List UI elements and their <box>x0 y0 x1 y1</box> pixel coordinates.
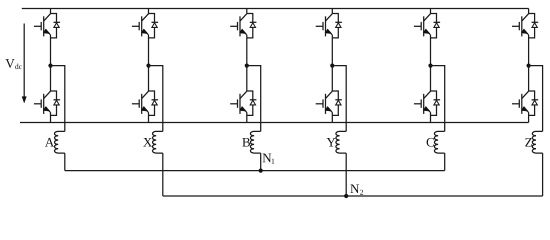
transistor Q6 IGBT (phase B lower) <box>230 91 247 114</box>
wire: Q5 emitter to midpoint node <box>246 35 248 66</box>
label phase X <box>143 138 152 147</box>
wire: neutral bus N1 (phases A,B,C) <box>65 170 445 172</box>
wire: phase A winding to neutral N1 <box>64 153 66 171</box>
label phase Y <box>327 138 336 147</box>
Vdc voltage arrow <box>22 24 26 103</box>
label phase C <box>427 138 434 147</box>
wire: Q1 collector/emitter branch to diode D1 <box>51 14 57 38</box>
wire: negative DC bus (bottom rail) <box>20 122 529 124</box>
wire: Q5 collector/emitter branch to diode D5 <box>247 14 253 38</box>
transistor Q4 IGBT (phase X lower) <box>132 91 149 114</box>
wire: neutral bus N2 (phases X,Y,Z) <box>163 195 543 197</box>
wire: top rail to Q1 collector <box>50 9 52 14</box>
diode D12 antiparallel (phase Z lower) <box>532 100 539 105</box>
diode D9 antiparallel (phase C upper) <box>434 22 441 27</box>
wire: top rail to Q11 collector <box>528 9 530 14</box>
diode D6 antiparallel (phase B lower) <box>250 100 257 105</box>
transistor Q12 IGBT (phase Z lower) <box>512 91 529 114</box>
wire: Q6 collector/emitter branch to diode D6 <box>247 91 253 115</box>
diode D1 antiparallel (phase A upper) <box>54 22 61 27</box>
wire: Q3 collector/emitter branch to diode D3 <box>149 14 155 38</box>
wire: Q2 emitter to bottom rail <box>50 112 52 122</box>
wire: midpoint to Q8 collector <box>331 66 333 91</box>
label phase Z <box>525 138 532 147</box>
node: phase B midpoint junction <box>245 64 249 68</box>
node: phase C midpoint junction <box>428 64 432 68</box>
wire: phase Z winding to neutral N2 <box>542 153 544 196</box>
inductor: phase C stator winding <box>434 131 444 153</box>
wire: Q10 emitter to bottom rail <box>430 112 432 122</box>
wire: midpoint to Q2 collector <box>50 66 52 91</box>
wire: phase Y winding to neutral N2 <box>345 153 347 196</box>
inductor: phase Y stator winding <box>336 131 346 153</box>
diode D4 antiparallel (phase X lower) <box>152 100 159 105</box>
wire: phase X output from midpoint down to winding <box>149 66 163 132</box>
wire: Q12 emitter to bottom rail <box>528 112 530 122</box>
inductor: phase B stator winding <box>250 131 260 153</box>
wire: phase B winding to neutral N1 <box>260 153 262 171</box>
wire: Q8 collector/emitter branch to diode D8 <box>332 91 338 115</box>
transistor Q9 IGBT (phase C upper) <box>414 14 431 37</box>
node: phase Y midpoint junction <box>330 64 334 68</box>
wire: Q3 emitter to midpoint node <box>148 35 150 66</box>
wire: midpoint to Q12 collector <box>528 66 530 91</box>
transistor Q5 IGBT (phase B upper) <box>230 14 247 37</box>
wire: Q8 emitter to bottom rail <box>331 112 333 122</box>
wire: Q9 emitter to midpoint node <box>430 35 432 66</box>
wire: Q4 emitter to bottom rail <box>148 112 150 122</box>
diode D3 antiparallel (phase X upper) <box>152 22 159 27</box>
node N1 junction <box>259 169 263 173</box>
wire: Q1 emitter to midpoint node <box>50 35 52 66</box>
wire: Q7 collector/emitter branch to diode D7 <box>332 14 338 38</box>
wire: Q4 collector/emitter branch to diode D4 <box>149 91 155 115</box>
wire: Q2 collector/emitter branch to diode D2 <box>51 91 57 115</box>
transistor Q11 IGBT (phase Z upper) <box>512 14 529 37</box>
wire: phase C winding to neutral N1 <box>444 153 446 171</box>
transistor Q2 IGBT (phase A lower) <box>34 91 51 114</box>
diode D7 antiparallel (phase Y upper) <box>335 22 342 27</box>
wire: Q10 collector/emitter branch to diode D10 <box>431 91 437 115</box>
transistor Q3 IGBT (phase X upper) <box>132 14 149 37</box>
wire: top rail to Q5 collector <box>246 9 248 14</box>
node: phase A midpoint junction <box>48 64 52 68</box>
inductor: phase X stator winding <box>152 131 162 153</box>
transistor Q7 IGBT (phase Y upper) <box>316 14 333 37</box>
node: phase Z midpoint junction <box>527 64 531 68</box>
wire: phase Z output from midpoint down to winding <box>529 66 543 132</box>
inductor: phase A stator winding <box>54 131 64 153</box>
label N2 <box>350 184 363 194</box>
wire: phase Y output from midpoint down to winding <box>332 66 346 132</box>
transistor Q10 IGBT (phase C lower) <box>414 91 431 114</box>
wire: midpoint to Q4 collector <box>148 66 150 91</box>
wire: phase A output from midpoint down to winding <box>51 66 65 132</box>
wire: midpoint to Q6 collector <box>246 66 248 91</box>
wire: Q11 collector/emitter branch to diode D11 <box>529 14 535 38</box>
wire: top rail to Q3 collector <box>148 9 150 14</box>
label phase A <box>45 138 54 147</box>
wire: Q6 emitter to bottom rail <box>246 112 248 122</box>
node: phase X midpoint junction <box>146 64 150 68</box>
diode D5 antiparallel (phase B upper) <box>250 22 257 27</box>
diode D2 antiparallel (phase A lower) <box>54 100 61 105</box>
diode D8 antiparallel (phase Y lower) <box>335 100 342 105</box>
wire: phase C output from midpoint down to winding <box>431 66 445 132</box>
wire: Q7 emitter to midpoint node <box>331 35 333 66</box>
transistor Q8 IGBT (phase Y lower) <box>316 91 333 114</box>
label phase B <box>242 138 250 147</box>
wire: Q9 collector/emitter branch to diode D9 <box>431 14 437 38</box>
wire: midpoint to Q10 collector <box>430 66 432 91</box>
transistor Q1 IGBT (phase A upper) <box>34 14 51 37</box>
label Vdc <box>5 59 21 69</box>
wire: Q11 emitter to midpoint node <box>528 35 530 66</box>
wire: phase X winding to neutral N2 <box>162 153 164 196</box>
diode D10 antiparallel (phase C lower) <box>434 100 441 105</box>
wire: positive DC bus (top rail) <box>22 8 529 10</box>
diode D11 antiparallel (phase Z upper) <box>532 22 539 27</box>
inductor: phase Z stator winding <box>532 131 542 153</box>
wire: top rail to Q9 collector <box>430 9 432 14</box>
wire: top rail to Q7 collector <box>331 9 333 14</box>
label N1 <box>263 154 275 164</box>
wire: phase B output from midpoint down to winding <box>247 66 261 132</box>
wire: Q12 collector/emitter branch to diode D12 <box>529 91 535 115</box>
node N2 junction <box>344 194 348 198</box>
